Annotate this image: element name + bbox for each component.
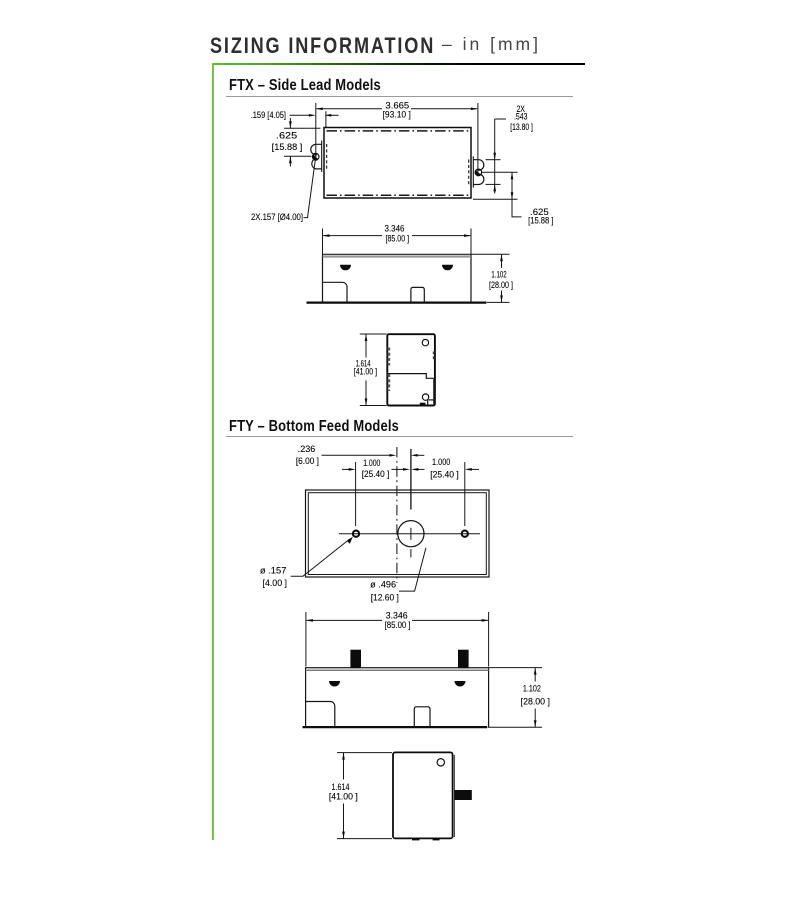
dimension 1.614 [41.00] FTX bbox=[354, 334, 387, 406]
svg-text:[41.00 ]: [41.00 ] bbox=[354, 366, 377, 376]
FTX left tab hole bbox=[312, 153, 319, 160]
svg-text:[6.00 ]: [6.00 ] bbox=[296, 456, 319, 466]
svg-text:[85.00 ]: [85.00 ] bbox=[385, 620, 411, 630]
svg-text:[25.40 ]: [25.40 ] bbox=[362, 469, 390, 479]
svg-text:ø .496: ø .496 bbox=[370, 580, 396, 590]
FTX end view inner right edge bbox=[433, 378, 435, 405]
FTY left mounting hole bbox=[353, 531, 359, 537]
FTX section heading bbox=[229, 77, 381, 95]
FTY bottom view vertical centerline bbox=[396, 447, 398, 583]
FTY bottom view outer outline bbox=[306, 490, 490, 577]
svg-text:[13.80 ]: [13.80 ] bbox=[510, 122, 533, 132]
FTX end view bottom notch bbox=[420, 400, 434, 405]
svg-text:1.102: 1.102 bbox=[491, 269, 506, 279]
dimension 1.102 [28.00] FTY bbox=[488, 668, 550, 728]
svg-text:3.346: 3.346 bbox=[385, 224, 405, 234]
svg-text:.236: .236 bbox=[298, 444, 316, 454]
dimension .625 [15.88] right bbox=[473, 172, 553, 225]
dimension 3.665 [93.10] bbox=[316, 101, 478, 177]
svg-text:[15.88 ]: [15.88 ] bbox=[272, 142, 303, 152]
FTX top view body outline bbox=[324, 128, 471, 199]
svg-text:[4.00 ]: [4.00 ] bbox=[263, 578, 288, 588]
label diameter .157 [4.00] bbox=[260, 537, 353, 588]
dimension 2X .543 [13.80] bbox=[486, 104, 533, 194]
svg-text:[12.60 ]: [12.60 ] bbox=[371, 592, 399, 602]
FTY mounting stud right bbox=[458, 650, 469, 668]
FTX end view top hole bbox=[422, 339, 428, 345]
FTY bottom view horizontal centerline bbox=[339, 533, 480, 535]
dimension .625 [15.88] left bbox=[272, 118, 321, 167]
FTX end view divider line bbox=[387, 374, 433, 379]
svg-text:[25.40 ]: [25.40 ] bbox=[430, 469, 459, 479]
svg-text:[93.10 ]: [93.10 ] bbox=[383, 109, 411, 119]
title suffix units bbox=[442, 34, 541, 55]
FTX right mounting tab bbox=[469, 156, 484, 187]
FTX top view lower centerline bbox=[327, 194, 470, 196]
dimension 1.000 [25.40] right bbox=[411, 457, 479, 526]
svg-text:.159 [4.05]: .159 [4.05] bbox=[251, 110, 286, 120]
dimension .159 [4.05] bbox=[251, 110, 339, 127]
svg-text:[41.00 ]: [41.00 ] bbox=[329, 791, 358, 801]
svg-text:.625: .625 bbox=[276, 131, 297, 141]
dimension 3.346 [85.00] FTX bbox=[323, 224, 472, 255]
FTX end view dashes right bbox=[433, 352, 435, 361]
FTX end view lead exit dashes left bbox=[388, 348, 391, 392]
FTX left mounting tab bbox=[311, 141, 327, 172]
svg-text:1.102: 1.102 bbox=[523, 684, 541, 694]
svg-text:2X.157 [Ø4.00]: 2X.157 [Ø4.00] bbox=[251, 212, 303, 222]
FTY right mounting hole bbox=[462, 531, 468, 537]
dimension 1.102 [28.00] FTX bbox=[472, 254, 514, 302]
svg-text:[85.00 ]: [85.00 ] bbox=[386, 233, 410, 243]
FTY end view hole bbox=[437, 759, 444, 766]
green vertical sidebar line bbox=[212, 63, 214, 840]
FTY side view center notch bbox=[414, 707, 430, 727]
green gradient rule bbox=[212, 63, 585, 65]
dimension .236 [6.00] bbox=[296, 444, 424, 466]
FTY section heading bbox=[229, 418, 399, 436]
svg-text:1.000: 1.000 bbox=[363, 458, 380, 468]
FTY end view body outline bbox=[393, 752, 454, 838]
FTY side view dimple right bbox=[455, 681, 466, 687]
FTY side view baseline bbox=[303, 726, 488, 728]
FTY end view stud bbox=[454, 790, 471, 800]
FTX right tab hole bbox=[475, 169, 482, 176]
FTY heading underline bbox=[226, 436, 573, 437]
svg-text:1.000: 1.000 bbox=[432, 457, 450, 467]
FTY feed hole bbox=[398, 449, 424, 558]
FTX end view bottom hole bbox=[422, 394, 428, 400]
dimension 1.000 [25.40] left bbox=[342, 458, 410, 526]
FTX side view dimple right bbox=[442, 265, 453, 271]
FTY bottom view inner edge bbox=[308, 493, 486, 575]
FTY side view dimple left bbox=[329, 681, 340, 687]
dimension 3.346 [85.00] FTY bbox=[306, 610, 489, 666]
FTX side view left notch bbox=[323, 282, 348, 302]
svg-text:ø .157: ø .157 bbox=[260, 565, 287, 575]
FTX heading underline bbox=[226, 96, 573, 97]
FTX side view body outline bbox=[323, 254, 472, 302]
FTY end view feet bbox=[412, 839, 440, 841]
FTY side view body outline bbox=[306, 668, 489, 727]
FTX side view mounting flange baseline bbox=[307, 301, 487, 303]
svg-text:[28.00 ]: [28.00 ] bbox=[521, 696, 550, 706]
FTX side view center notch bbox=[411, 287, 424, 302]
FTX top view upper centerline bbox=[327, 130, 470, 132]
FTY side view left notch bbox=[306, 702, 335, 728]
dimension 1.614 [41.00] FTY bbox=[329, 753, 392, 839]
label diameter .496 [12.60] bbox=[370, 548, 426, 602]
svg-text:[15.88 ]: [15.88 ] bbox=[528, 216, 553, 226]
svg-text:.543: .543 bbox=[514, 111, 528, 121]
FTY mounting stud left bbox=[350, 650, 361, 668]
svg-text:[28.00 ]: [28.00 ] bbox=[489, 280, 513, 290]
page title bbox=[210, 33, 435, 59]
label 2X.157 [diameter 4.00] bbox=[251, 161, 315, 222]
FTX end view body outline bbox=[387, 334, 435, 405]
FTX side view dimple left bbox=[340, 265, 351, 271]
